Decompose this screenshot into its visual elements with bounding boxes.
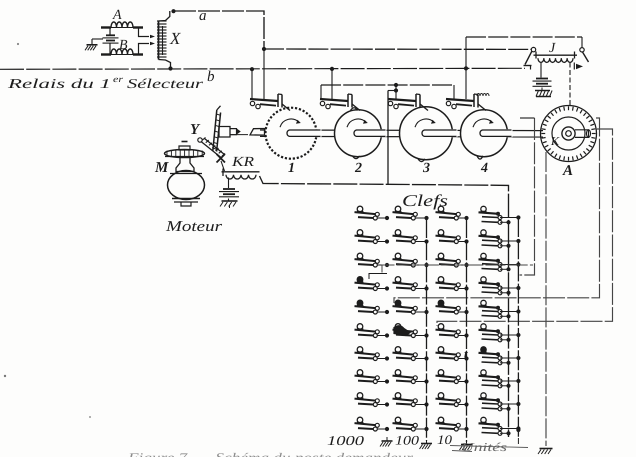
pawl arrow on shaft xyxy=(237,129,241,134)
ground (battery A/B) xyxy=(85,39,103,50)
bus 10s column xyxy=(466,218,468,442)
coil B xyxy=(101,38,143,55)
key 10s row 5 xyxy=(436,300,469,314)
wire: J coil to battery xyxy=(540,62,542,78)
contact group above cam 1 xyxy=(250,94,290,111)
svg-text:X: X xyxy=(169,29,181,48)
coil A xyxy=(101,8,143,28)
wire b (long dashed bus) xyxy=(0,68,525,85)
wire: jog to long vertical xyxy=(388,90,396,92)
wire: key 1000s row4 jog xyxy=(369,274,387,280)
wire: node a-branch to relay J left contact xyxy=(264,48,531,50)
relay J coil xyxy=(534,41,578,62)
key units row 8 xyxy=(479,370,521,388)
main shaft xyxy=(260,129,543,132)
speck xyxy=(17,43,19,45)
wire: cross bus above cams (y85) xyxy=(321,84,454,86)
key 100s row 4 xyxy=(393,277,429,291)
key 100s row 5 xyxy=(393,300,429,314)
key units row 1 xyxy=(479,206,521,224)
key 100s row 2 xyxy=(393,230,429,244)
battery (between coils A and B) xyxy=(103,28,119,54)
contact group above cam 4 xyxy=(446,94,486,111)
svg-text:1000: 1000 xyxy=(327,433,364,448)
armature link to KR xyxy=(221,161,225,171)
key 1000s row 7 xyxy=(355,347,390,361)
label Unites xyxy=(450,440,528,454)
key 10s row 6 xyxy=(436,324,469,338)
svg-text:K: K xyxy=(550,134,560,148)
key 100s row 6 xyxy=(393,324,429,338)
node: wire a branch xyxy=(262,47,266,51)
key units row 7 xyxy=(479,347,521,365)
key units row 2 xyxy=(479,230,521,248)
key units row 10 xyxy=(479,417,521,435)
shaft sleeve cylinder xyxy=(219,127,237,138)
dial frame top-left tick xyxy=(520,117,535,119)
dial A outer ring xyxy=(541,106,597,162)
speck xyxy=(89,416,91,418)
svg-text:1: 1 xyxy=(288,161,295,176)
key 1000s row 6 xyxy=(355,324,390,338)
governor Y ratchet bar xyxy=(213,106,221,152)
junction: wire b / drop to contact group 2 xyxy=(330,67,334,71)
key 10s row 4 xyxy=(436,277,469,291)
ground (1000s bus) xyxy=(380,437,393,447)
key 10s row 7 xyxy=(436,347,469,361)
wire: drop to contact group 2 xyxy=(320,85,322,99)
small coil mark above contact group 4 xyxy=(477,94,489,97)
svg-text:Relais du 1: Relais du 1 xyxy=(6,76,111,91)
key 100s row 3 xyxy=(393,253,429,267)
ground (units right wire) xyxy=(538,449,553,455)
cam switch 3 xyxy=(400,107,458,162)
dashed pointer: J to dial A xyxy=(569,63,571,107)
svg-text:A: A xyxy=(562,163,573,179)
key 1000s row 3 xyxy=(355,253,390,267)
wire: KR to key-field frame (top edge) and down right side xyxy=(260,176,509,437)
key units row 5 xyxy=(479,300,521,318)
key 10s row 10 xyxy=(436,417,469,431)
svg-text:4: 4 xyxy=(480,161,488,176)
stub below units secondary xyxy=(517,438,519,444)
key units row 3 xyxy=(479,253,521,271)
svg-text:M: M xyxy=(154,160,169,176)
key 100s row 7 xyxy=(393,347,429,361)
ground (100s bus) xyxy=(420,441,433,449)
svg-text:b: b xyxy=(207,69,215,85)
key 1000s row 10 xyxy=(355,417,390,431)
svg-text:A: A xyxy=(112,8,122,23)
long vertical: between cams 2-3 down to key matrix (1000s bus) xyxy=(387,91,389,185)
junction: X top / wire a xyxy=(171,9,175,13)
contact group above cam 3 xyxy=(388,94,428,111)
key 1000s row 8 xyxy=(355,370,390,384)
key 10s row 9 xyxy=(436,393,469,407)
speck xyxy=(4,375,6,377)
key 100s row 8 xyxy=(393,370,429,384)
svg-text:KR: KR xyxy=(231,155,255,170)
cam switch 4 xyxy=(461,110,513,159)
key 10s row 3 xyxy=(436,253,469,267)
cam switch 1 xyxy=(266,108,322,159)
svg-text:Sélecteur: Sélecteur xyxy=(127,76,204,91)
J left contact arm xyxy=(524,47,536,69)
wire: row3 contact across to dial-frame vertical xyxy=(382,265,533,273)
relay X contact stack xyxy=(157,11,181,69)
wire: node down to cam-1 contact group xyxy=(263,49,265,99)
key 10s row 2 xyxy=(436,230,469,244)
top wire to relay J xyxy=(466,36,582,38)
battery (J) xyxy=(536,78,548,80)
dial A inner circle xyxy=(552,117,585,150)
key 10s row 8 xyxy=(436,370,469,384)
ground (J) xyxy=(535,88,552,97)
key 1000s row 2 xyxy=(355,230,390,244)
J right contact arm xyxy=(574,48,588,70)
svg-text:er: er xyxy=(113,74,124,84)
svg-text:a: a xyxy=(199,8,207,24)
junction: wire b / drop to contact group 1 xyxy=(250,67,254,71)
junction on y85 bus xyxy=(394,83,398,87)
dial A hub xyxy=(562,127,575,140)
key 100s row 9 xyxy=(393,393,429,407)
dial frame left edge xyxy=(520,118,535,275)
svg-text:Moteur: Moteur xyxy=(165,219,222,235)
key 100s row 10 xyxy=(393,417,429,431)
wire a (horizontal then down) xyxy=(174,8,264,49)
wire: drop to contact group 4 (left) xyxy=(453,85,455,99)
svg-text:100: 100 xyxy=(395,433,420,448)
ground (10s bus) xyxy=(460,442,473,450)
wire: top wire down to J right contact xyxy=(581,37,583,48)
clutch cone xyxy=(250,129,265,136)
svg-text:2: 2 xyxy=(354,161,362,176)
junction: wire b / vertical to contact group 4 xyxy=(464,66,468,70)
cam switch 2 xyxy=(335,108,387,159)
pawl cross xyxy=(217,154,226,163)
svg-text:10: 10 xyxy=(437,432,453,447)
wire: KR to battery xyxy=(228,178,230,189)
motor M flywheel disc xyxy=(165,142,205,158)
bus 100s column xyxy=(426,218,428,441)
shaft gap line xyxy=(230,134,248,136)
key units row 9 xyxy=(479,393,521,411)
ground (KR) xyxy=(220,199,238,209)
wire: b down to contact group 2 xyxy=(331,69,333,99)
key 1000s row 1 xyxy=(355,206,390,220)
dial frame right edge / wire down to key matrix xyxy=(394,118,600,303)
junction: X bottom on wire b xyxy=(168,66,172,70)
svg-text:J: J xyxy=(549,41,556,56)
wire: dial right to far-right vertical xyxy=(437,129,613,326)
relay KR coil xyxy=(222,155,260,179)
svg-text:3: 3 xyxy=(422,161,430,176)
contact group above cam 2 xyxy=(320,94,360,111)
bus units secondary xyxy=(517,217,519,438)
svg-text:Figure 7. — Schéma du poste de: Figure 7. — Schéma du poste demandeur xyxy=(127,451,414,457)
key units row 6 xyxy=(479,324,521,342)
battery (KR) xyxy=(223,188,235,190)
wire: drop to contact group 3 xyxy=(395,85,397,99)
key 1000s row 4 xyxy=(355,277,390,291)
vertical wire: dial area down to units ground xyxy=(545,152,547,446)
motor body xyxy=(168,158,205,207)
junction lower xyxy=(394,88,398,92)
wire: coil A to relay X (with arrow) xyxy=(139,28,156,38)
key 10s row 1 xyxy=(436,206,469,220)
dial A shaft stub xyxy=(575,130,591,138)
wire: b down to contact group 1 xyxy=(251,69,253,100)
junction units secondary bottom xyxy=(516,428,520,432)
wire: down from top wire to contact group 4 xyxy=(465,37,467,99)
worm / governor spindle (diagonal hatched) xyxy=(198,137,225,157)
wire: coil B to relay X (with arrow) xyxy=(139,42,156,54)
key 1000s row 9 xyxy=(355,393,390,407)
svg-text:B: B xyxy=(119,38,128,53)
key 100s row 1 xyxy=(393,206,429,220)
key units row 4 xyxy=(479,277,521,295)
key 1000s row 5 xyxy=(355,300,390,314)
